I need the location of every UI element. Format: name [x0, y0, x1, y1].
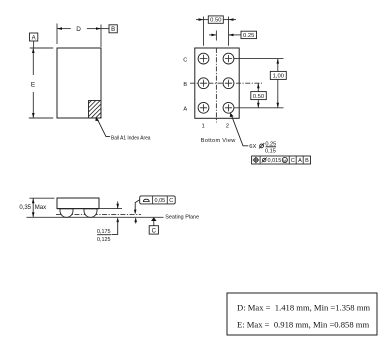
standoff dimension arrows 0,175/0,125 — [97, 201, 119, 234]
extension line top-left (E top) — [30, 47, 53, 49]
svg-text:C: C — [152, 229, 157, 235]
svg-text:0.50: 0.50 — [253, 94, 264, 100]
svg-text:0,35: 0,35 — [19, 205, 31, 211]
leader from ball A2 to 6X note — [230, 113, 249, 146]
dimension 0,35 Max — [29, 198, 54, 217]
datum A — [30, 33, 38, 48]
vertical centerline (bottom view) — [215, 31, 217, 123]
svg-text:D: D — [76, 26, 81, 33]
extension lines for D — [56, 24, 58, 45]
extension line bottom-left (E bottom) — [29, 117, 53, 119]
svg-text:6X: 6X — [249, 144, 256, 150]
svg-text:0.50: 0.50 — [210, 18, 221, 24]
svg-text:2: 2 — [226, 124, 229, 130]
dimension 0.25 — [209, 31, 257, 38]
solder balls side view — [60, 209, 97, 218]
column extension lines — [203, 17, 205, 46]
bottom view outline — [195, 48, 239, 118]
dimension 1,00 — [270, 59, 286, 108]
svg-text:B: B — [305, 158, 309, 164]
position feature control frame — [252, 156, 311, 164]
svg-text:Ball A1 Index Area: Ball A1 Index Area — [111, 136, 151, 142]
notes table — [227, 293, 377, 335]
dimension 0.50 top — [196, 16, 236, 23]
svg-text:Max: Max — [35, 205, 46, 211]
svg-text:Bottom View: Bottom View — [201, 138, 236, 144]
svg-text:C: C — [291, 158, 295, 164]
redraw body bottom edge over balls — [57, 208, 99, 210]
seating plane solid line — [27, 216, 164, 218]
svg-text:0,125: 0,125 — [97, 237, 111, 243]
ball A1 index area hatch — [74, 100, 118, 119]
dimension 0.50 right — [251, 83, 266, 108]
row C extension line — [234, 58, 284, 60]
svg-text:1: 1 — [202, 124, 205, 130]
svg-text:A: A — [183, 106, 187, 112]
svg-text:0,015: 0,015 — [268, 158, 282, 164]
balls (6x) with crosshairs — [198, 53, 234, 113]
small up arrow under seating plane at flatness callout — [134, 217, 137, 223]
svg-text:0.25: 0.25 — [265, 141, 276, 147]
flatness/profile symbol — [143, 199, 149, 201]
svg-text:Seating Plane: Seating Plane — [165, 215, 199, 221]
body bottom extension line — [99, 208, 122, 210]
leader to Ball A1 Index Area label — [95, 117, 110, 137]
svg-text:C: C — [183, 57, 187, 63]
side view seating dash-dot line — [56, 213, 141, 215]
datum B — [101, 25, 117, 33]
svg-text:D: Max = 1.418 mm, Min =1.358: D: Max = 1.418 mm, Min =1.358 mm — [237, 302, 370, 312]
svg-text:M: M — [283, 158, 286, 163]
svg-text:E: E — [31, 82, 35, 89]
6X dia note symbols — [259, 143, 276, 148]
svg-text:1,00: 1,00 — [273, 74, 284, 80]
svg-text:A: A — [298, 158, 302, 164]
dimension E — [32, 48, 35, 118]
position symbol — [254, 158, 258, 162]
horizontal centerline row B — [190, 82, 262, 84]
svg-text:0,15: 0,15 — [265, 149, 276, 155]
flatness feature control frame — [140, 196, 176, 204]
M circle — [282, 157, 287, 162]
svg-text:0.25: 0.25 — [243, 33, 254, 39]
svg-text:0,05: 0,05 — [155, 198, 166, 204]
dia symbol in tolerance cell — [262, 158, 266, 162]
svg-text:B: B — [183, 82, 187, 88]
datum C — [149, 217, 158, 234]
svg-text:0,175: 0,175 — [97, 229, 111, 235]
side view body — [57, 198, 99, 209]
svg-text:C: C — [169, 198, 173, 204]
package top view outline — [57, 48, 101, 118]
svg-text:E: Max = 0.918 mm, Min =0.858: E: Max = 0.918 mm, Min =0.858 mm — [237, 319, 369, 329]
leader from flatness frame — [134, 200, 140, 215]
dimension D — [57, 27, 101, 30]
svg-text:A: A — [32, 35, 36, 41]
svg-text:B: B — [111, 27, 115, 33]
row A extension line — [234, 107, 284, 109]
